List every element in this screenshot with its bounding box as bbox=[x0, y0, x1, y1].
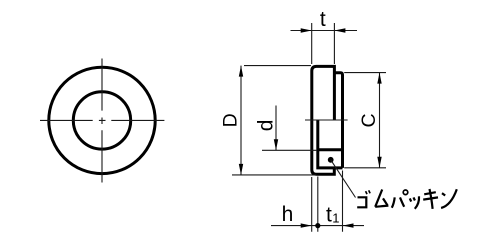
dimension D: dimension line with inside arrows bbox=[240, 66, 242, 175]
svg-text:d: d bbox=[254, 120, 277, 132]
dimension t: dimension line with outside arrows bbox=[291, 30, 358, 32]
svg-text:h: h bbox=[282, 203, 294, 226]
svg-text:t: t bbox=[320, 8, 326, 31]
dimension C: dimension line with inside arrows bbox=[379, 73, 381, 168]
dimension h and t1: extension lines bbox=[312, 171, 343, 232]
katakana N bbox=[441, 189, 457, 208]
svg-text:t: t bbox=[326, 204, 332, 227]
dot terminator between h and t1 bbox=[315, 223, 320, 228]
svg-text:1: 1 bbox=[332, 210, 339, 225]
katakana GO bbox=[357, 197, 366, 207]
svg-text:D: D bbox=[219, 113, 241, 127]
label: gomu packing (katakana, hand drawn) bbox=[357, 189, 457, 209]
washer front view: inner hole circle (dia d) bbox=[73, 92, 130, 149]
side section: rubber packing inner wall and bottom face bbox=[318, 120, 343, 168]
dimension t: extension lines bbox=[312, 23, 335, 64]
svg-text:C: C bbox=[358, 113, 380, 127]
dimension d: half dimension line with down arrow bbox=[275, 106, 277, 151]
katakana MU bbox=[375, 190, 388, 207]
leader line to rubber packing bbox=[328, 157, 334, 163]
dimension D: extension lines bbox=[232, 66, 316, 175]
katakana KI bbox=[423, 189, 438, 209]
washer front view: outer circle (dia D) bbox=[49, 67, 155, 173]
katakana PA bbox=[392, 197, 404, 207]
dimension h / t1: dimension line bbox=[271, 225, 364, 227]
side section: metal washer outline (left face, top face, bottom face) bbox=[312, 66, 335, 174]
side section: rubber packing hole edge (dia d) bbox=[318, 148, 343, 151]
vertical centerline of front view bbox=[101, 58, 103, 182]
side view centerline bbox=[305, 119, 348, 121]
horizontal centerline of front view bbox=[40, 119, 164, 121]
katakana small TSU bbox=[410, 196, 419, 209]
dimension C: extension lines bbox=[344, 73, 386, 168]
dimension d: extension line bbox=[262, 149, 317, 151]
side section: rubber packing lip (top step and outer face, dia C) bbox=[334, 73, 342, 168]
